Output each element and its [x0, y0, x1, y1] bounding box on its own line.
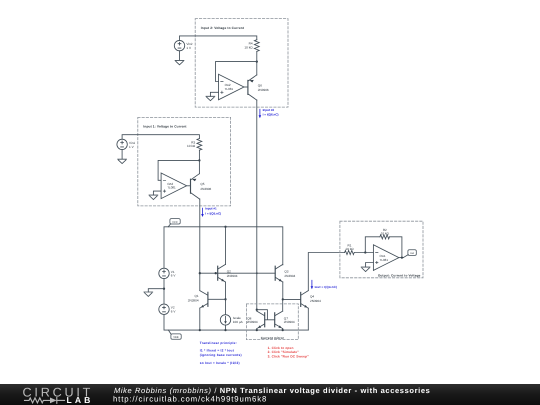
- transistor Q1 2N3904: [207, 292, 209, 306]
- transistor Q2 2N3904: [217, 266, 219, 280]
- svg-text:2N3904: 2N3904: [310, 299, 321, 303]
- svg-text:2N3904: 2N3904: [284, 320, 295, 324]
- wire V1 to V2: [163, 279, 165, 305]
- ground left of V1: [144, 292, 153, 296]
- node bus left: [199, 272, 201, 274]
- current source Iscale: [220, 315, 230, 325]
- wire Q3 emitter riser: [282, 282, 284, 299]
- node Q1 emitter on rail: [199, 329, 201, 331]
- svg-text:Q5: Q5: [200, 182, 204, 186]
- wire feedback to op-amp minus: [216, 62, 257, 82]
- svg-text:Current mirror: Current mirror: [261, 336, 285, 340]
- ground below Vin1: [118, 150, 127, 164]
- svg-text:Q1: Q1: [194, 294, 198, 298]
- wire Q1 emitter to rail: [199, 308, 201, 330]
- svg-text:3. Click "Run DC Sweep": 3. Click "Run DC Sweep": [268, 354, 310, 358]
- wire Q7 collector riser: [282, 299, 284, 311]
- svg-text:2N3906: 2N3906: [200, 187, 211, 191]
- wire OA1 output: [399, 257, 403, 259]
- transistor Q8 2N3904: [264, 313, 266, 327]
- node Q1 base tee: [224, 298, 226, 300]
- node ground tap: [163, 288, 165, 290]
- wire VEE rail: [164, 315, 308, 331]
- op-amp OA2: [219, 74, 245, 100]
- wire OA1 plus to ground: [366, 263, 374, 268]
- svg-text:VEE: VEE: [173, 336, 179, 339]
- node Q8 emitter on rail: [256, 329, 258, 331]
- svg-text:VCC: VCC: [172, 221, 178, 224]
- svg-text:Q4: Q4: [310, 294, 314, 298]
- transistor Q6 2N3906: [247, 80, 249, 94]
- voltage source V1: [159, 268, 169, 278]
- svg-text:LAB: LAB: [67, 395, 94, 405]
- svg-text:2N3904: 2N3904: [284, 274, 295, 278]
- op-amp OA3: [161, 173, 187, 199]
- svg-text:Mike Robbins (mrobbins) / NPN: Mike Robbins (mrobbins) / NPN Translinea…: [114, 386, 430, 395]
- wire Q7 emitter to rail: [282, 329, 284, 331]
- net flag out: [403, 255, 408, 258]
- wire OA3 output to Q5 base: [187, 185, 191, 187]
- ground below Vin2: [175, 51, 184, 65]
- svg-text:I1 * Ifixed = I2 * Iout: I1 * Ifixed = I2 * Iout: [200, 349, 235, 353]
- wire mirror base tie: [257, 310, 275, 320]
- logo wire resistor diode: [25, 398, 57, 404]
- node Iout annotation: [311, 280, 313, 286]
- ground at OA2 plus input: [206, 96, 215, 100]
- wire Q4 emitter to rail: [307, 308, 309, 330]
- wire Q2 collector riser: [225, 227, 227, 265]
- wire R3 bottom to Q5 emitter: [198, 150, 200, 174]
- svg-text:(ignoring base currents): (ignoring base currents): [200, 353, 242, 357]
- svg-text:Input 1: Voltage to Current: Input 1: Voltage to Current: [143, 125, 187, 129]
- svg-text:10 kΩ: 10 kΩ: [345, 247, 354, 251]
- wire Q6 collector down to current mirror: [256, 100, 258, 311]
- svg-text:I = I(Q5.nC): I = I(Q5.nC): [205, 211, 221, 215]
- transistor Q5 2N3906: [190, 179, 192, 193]
- wire R2 to output node: [390, 237, 402, 258]
- node Q7 emitter on rail: [282, 329, 284, 331]
- svg-text:10 kΩ: 10 kΩ: [244, 45, 253, 49]
- svg-text:2N3906: 2N3906: [258, 88, 269, 92]
- wire Q4 collector to output box: [308, 253, 344, 291]
- transistor Q7 2N3904: [274, 313, 276, 327]
- wire feedback riser: [365, 237, 380, 253]
- svg-text:TL081: TL081: [380, 258, 389, 262]
- wire R1 to OA1 minus: [355, 252, 374, 254]
- svg-text:TL081: TL081: [225, 87, 234, 91]
- wire Vin2 top to R4 top: [180, 36, 257, 41]
- node mirror diode tap: [256, 309, 258, 311]
- ground at OA1 plus input: [361, 267, 370, 271]
- svg-text:Input #2: Input #2: [263, 108, 275, 112]
- op-amp OA1: [373, 245, 399, 271]
- wire Q2 emitter to Iscale: [225, 282, 227, 315]
- svg-text:10 kΩ: 10 kΩ: [381, 231, 390, 235]
- svg-text:Iout = I(Q4.nC): Iout = I(Q4.nC): [315, 285, 337, 289]
- resistor R2: [380, 235, 390, 239]
- svg-text:100 µA: 100 µA: [233, 320, 244, 324]
- node Iscale on rail: [224, 329, 226, 331]
- node bus input2: [256, 272, 258, 274]
- wire OA3 plus to ground: [153, 191, 161, 195]
- node Input 2 annotation: [259, 109, 261, 115]
- wire Q5 collector down to Q1: [198, 199, 200, 291]
- node Q4 base tee: [282, 298, 284, 300]
- svg-text:Q2: Q2: [227, 270, 231, 274]
- svg-text:Output: Current to Voltage: Output: Current to Voltage: [378, 273, 421, 277]
- dashed box Output: Current to Voltage: [340, 221, 423, 278]
- node feedback tap box2: [256, 60, 258, 62]
- voltage source Vin2: [174, 40, 184, 50]
- transistor Q3 2N3904: [274, 266, 276, 280]
- wire to left ground: [148, 289, 164, 292]
- svg-text:http://circuitlab.com/ck4h99t9: http://circuitlab.com/ck4h99t9um6k8: [113, 395, 267, 404]
- wire base bus Q2 Q3: [200, 272, 275, 274]
- wire R4 bottom to Q6 emitter: [256, 51, 258, 75]
- net flag VEE: [168, 330, 171, 334]
- dashed box current mirror: [246, 304, 298, 340]
- svg-text:so Iout = Iscale * (I1/I2): so Iout = Iscale * (I1/I2): [200, 361, 240, 365]
- svg-text:I = I(Q6.nC): I = I(Q6.nC): [263, 113, 279, 117]
- node Input 1 annotation: [202, 208, 204, 214]
- node feedback tap output: [364, 251, 366, 253]
- net flag VCC: [170, 219, 180, 224]
- transistor Q4 2N3904: [300, 292, 302, 306]
- node Q2 collector on rail: [224, 226, 226, 228]
- svg-text:Input #1: Input #1: [205, 207, 217, 211]
- svg-text:Translinear principle:: Translinear principle:: [200, 341, 237, 345]
- resistor R3: [197, 139, 202, 151]
- wire Q8 emitter to rail: [256, 329, 258, 331]
- svg-text:2N3904: 2N3904: [188, 299, 199, 303]
- svg-text:10 kΩ: 10 kΩ: [187, 144, 196, 148]
- resistor R4: [254, 40, 259, 52]
- svg-text:Q3: Q3: [284, 270, 288, 274]
- svg-text:out: out: [410, 252, 414, 255]
- voltage source V2: [159, 304, 169, 314]
- voltage source Vin1: [117, 139, 127, 149]
- wire Vin1 top to R3 top: [122, 135, 199, 140]
- svg-text:Input 2: Voltage to Current: Input 2: Voltage to Current: [201, 26, 245, 30]
- node feedback tap box1: [198, 159, 200, 161]
- node output: [401, 256, 403, 258]
- node Q2 base pin: [215, 272, 217, 274]
- dashed box Input 1: Voltage to Current: [138, 117, 231, 205]
- svg-text:2N3904: 2N3904: [247, 320, 258, 324]
- svg-text:2N3904: 2N3904: [227, 274, 238, 278]
- ground at OA3 plus input: [149, 195, 158, 199]
- wire op-amp plus to ground: [210, 92, 218, 96]
- svg-text:Q6: Q6: [258, 83, 262, 87]
- svg-text:TL081: TL081: [167, 186, 176, 190]
- wire feedback to OA3 minus: [158, 160, 199, 180]
- wire VCC rail: [164, 227, 283, 268]
- wire Q4 base: [283, 298, 301, 300]
- resistor R1: [345, 250, 355, 254]
- wire op-amp output to Q6 base: [244, 86, 248, 88]
- dashed box Input 2: Voltage to Current: [195, 19, 288, 108]
- wire Iscale to rail: [225, 325, 227, 330]
